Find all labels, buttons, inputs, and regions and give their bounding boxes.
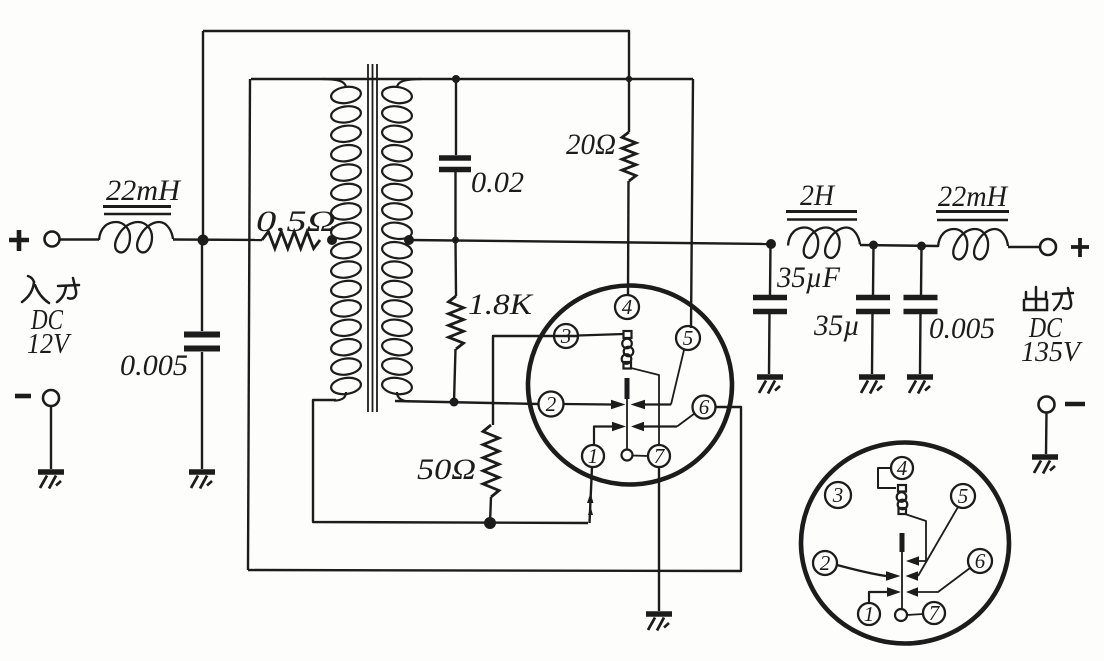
socket detail reed bar	[900, 533, 905, 552]
svg-text:0.02: 0.02	[471, 166, 524, 199]
socket detail pin 4	[891, 457, 913, 479]
inductor L3 core bars	[936, 210, 1009, 213]
junction 35u node	[869, 241, 878, 250]
svg-text:0.005: 0.005	[120, 349, 188, 382]
wire 35u to ground	[871, 311, 874, 374]
socket detail coil contact arrow	[906, 556, 919, 566]
vibrator V1 contact pair upper	[564, 403, 612, 406]
svg-text:35µF: 35µF	[776, 261, 841, 294]
junction 35uF node	[766, 239, 776, 249]
svg-text:7: 7	[929, 601, 941, 625]
socket detail contact pair lower	[869, 592, 887, 603]
wire main rail input section	[60, 238, 99, 240]
svg-text:22mH: 22mH	[938, 180, 1009, 213]
capacitor C5 0.005 output	[904, 295, 938, 301]
resistor R3 20-ohm	[622, 132, 636, 181]
wire pin 7 to ground	[658, 467, 660, 611]
wire 35uF to ground	[768, 311, 771, 374]
vibrator V1 pin 5	[676, 326, 700, 350]
transformer T1 core	[367, 64, 369, 412]
wire right rail down to pin 5	[691, 79, 693, 328]
junction secondary tap	[404, 235, 414, 245]
ground C4	[859, 374, 885, 380]
wire output minus to ground	[1045, 413, 1048, 455]
capacitor C1 0.005 input	[184, 332, 220, 338]
wire 0.02 to rail	[454, 172, 456, 240]
junction primary tap	[327, 235, 337, 245]
ground C1	[189, 469, 215, 475]
ground C5	[907, 374, 933, 380]
wire rail 2H to 22mH	[860, 245, 938, 246]
socket detail pin 6	[968, 549, 992, 573]
svg-text:50Ω: 50Ω	[417, 453, 476, 486]
terminal output plus circle	[1040, 239, 1056, 255]
svg-text:1: 1	[864, 602, 875, 626]
wire input minus to ground	[50, 406, 52, 469]
svg-text:3: 3	[560, 324, 572, 348]
vibrator V1 pin 2	[539, 392, 564, 417]
vibrator V1 reed bar	[625, 378, 630, 399]
wire output 0.005 to ground	[919, 311, 922, 374]
wire 20-ohm branch upper	[628, 79, 630, 132]
wire pin1 tail arrow	[587, 493, 594, 503]
vibrator V1 pin 6	[693, 396, 716, 419]
ground input minus	[38, 469, 64, 475]
socket detail pin4 bracket	[878, 468, 896, 488]
vibrator V1 drive coil	[622, 331, 634, 369]
junction 50-ohm bottom	[484, 517, 496, 529]
svg-text:1: 1	[588, 444, 599, 468]
terminal input minus circle	[43, 390, 59, 406]
svg-text:135V: 135V	[1021, 336, 1083, 368]
svg-text:2H: 2H	[800, 179, 836, 212]
ground vibrator	[646, 611, 672, 617]
wire contact to pin 5	[918, 507, 958, 576]
wire 50-ohm bottom	[490, 497, 491, 523]
vibrator V1 pin 7	[648, 445, 670, 467]
svg-text:3: 3	[832, 483, 844, 507]
vibrator V1 pin 1	[582, 445, 604, 467]
svg-text:2: 2	[820, 551, 831, 575]
transformer T1 secondary winding	[381, 79, 422, 402]
socket detail contact pair upper	[837, 565, 886, 576]
svg-text:4: 4	[622, 295, 633, 319]
wire pin3 to 50-ohm branch	[493, 336, 578, 425]
wire 0.02 / 1.8K branch vertical top	[455, 79, 457, 155]
socket detail pin 1	[858, 603, 880, 625]
socket detail drive coil	[897, 485, 908, 514]
ground output minus	[1032, 454, 1058, 460]
junction rail x 0.02 branch	[452, 237, 459, 244]
wire input 0.005 cap branch	[201, 240, 203, 331]
wire rail to output terminal	[1008, 246, 1040, 248]
socket detail reed stem	[901, 552, 903, 608]
junction output 0.005 node	[917, 242, 926, 251]
wire pin 3 to drive coil	[578, 334, 624, 336]
svg-text:12V: 12V	[27, 328, 72, 360]
wire contact to pin 6	[677, 414, 695, 427]
svg-text:7: 7	[654, 444, 666, 468]
vibrator V1 pin 3	[554, 324, 578, 348]
svg-text:22mH: 22mH	[106, 174, 182, 207]
svg-text:4: 4	[897, 456, 908, 480]
wire contact to pin 6	[918, 568, 970, 592]
wire 1.8K bottom	[454, 349, 456, 402]
socket detail reed pivot circle	[895, 609, 907, 621]
wire 35uF cap branch	[769, 244, 772, 295]
wire contact to pin 5	[671, 350, 684, 405]
svg-text:20Ω: 20Ω	[566, 128, 616, 161]
wire top rail from input node to 20-ohm branch	[203, 31, 629, 79]
socket detail pin 2	[813, 551, 837, 575]
wire coil to reed contact	[905, 514, 926, 561]
wire pin1 tail	[590, 467, 593, 523]
terminal output minus sign	[1065, 402, 1085, 407]
svg-text:1.8K: 1.8K	[468, 288, 534, 321]
capacitor C4 35u	[856, 295, 890, 301]
label output 出力	[1024, 287, 1073, 310]
svg-text:0.5Ω: 0.5Ω	[256, 205, 336, 238]
wire rail from 22mH to 0.5-ohm	[173, 238, 262, 241]
wire output 0.005 cap branch	[920, 246, 923, 295]
vibrator V1 envelope circle	[528, 286, 732, 485]
inductor L2 2H choke	[788, 228, 860, 258]
vibrator V1 reed pivot circle	[622, 450, 633, 461]
svg-text:0.005: 0.005	[929, 312, 995, 345]
wire rail to 1.8K	[454, 240, 457, 296]
wire 35u cap branch	[872, 245, 875, 295]
svg-text:35µ: 35µ	[813, 309, 860, 342]
wire input node vertical	[202, 31, 204, 240]
transformer T1 primary winding	[322, 79, 362, 401]
ground C3	[757, 374, 783, 380]
resistor R2 1.8K	[449, 296, 464, 349]
wire second rail (transformer top rail)	[251, 78, 693, 80]
wire inner box left side	[248, 79, 250, 570]
svg-text:5: 5	[683, 326, 694, 350]
terminal output plus sign	[1071, 238, 1089, 257]
wire pivot to pin 7	[633, 455, 649, 458]
wire secondary bottom to pin 2	[395, 401, 539, 404]
socket detail pin 7	[923, 602, 945, 624]
junction 20-ohm top	[626, 76, 632, 82]
inductor L2 core bars	[786, 210, 857, 213]
terminal input minus sign	[15, 394, 31, 399]
wire pivot to pin 7	[907, 614, 923, 615]
terminal input plus sign	[9, 230, 29, 251]
resistor R4 50-ohm	[483, 425, 499, 497]
socket detail envelope circle	[801, 443, 1009, 644]
wire coil to pin 7	[631, 368, 659, 445]
svg-text:6: 6	[699, 395, 710, 419]
wire primary bottom loop to 50-ohm junction	[313, 400, 588, 523]
vibrator V1 contact pair lower	[594, 427, 612, 446]
wire pin 6 loop to bottom rail	[248, 407, 741, 571]
svg-text:2: 2	[546, 392, 557, 416]
inductor L1 core bars	[103, 205, 171, 208]
vibrator V1 reed stem	[626, 399, 628, 449]
capacitor C2 0.02	[439, 155, 471, 161]
capacitor C3 35uF	[753, 295, 787, 301]
junction 1.8K bottom	[450, 398, 459, 407]
wire input 0.005 cap to ground	[201, 352, 203, 469]
label input 入力	[22, 276, 79, 303]
socket detail pin 3	[825, 482, 851, 508]
wire 20-ohm to pin 4	[627, 181, 630, 295]
vibrator V1 pin 4	[615, 295, 639, 319]
junction input node	[198, 235, 209, 246]
inductor L3 22mH output choke	[938, 229, 1008, 259]
terminal output minus circle	[1039, 397, 1055, 413]
terminal input plus circle	[45, 232, 60, 247]
resistor R1 0.5-ohm	[262, 232, 320, 249]
inductor L1 22mH input choke	[99, 222, 173, 252]
wire main rail center to output	[409, 240, 771, 244]
svg-text:6: 6	[975, 549, 986, 573]
svg-text:5: 5	[958, 484, 969, 508]
junction top of 0.02 branch	[452, 75, 460, 83]
socket detail pin 5	[951, 484, 975, 508]
